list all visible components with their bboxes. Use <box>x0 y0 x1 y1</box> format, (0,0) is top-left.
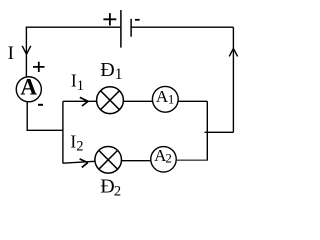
lamp D2 <box>95 147 122 174</box>
arrow return current upward <box>229 48 237 56</box>
arrow current I downward <box>22 46 31 55</box>
wire bottom-left horizontal to left bus <box>27 129 64 131</box>
wire left vertical <box>25 27 27 77</box>
wire top right horizontal <box>131 26 233 28</box>
wire branch2 left segment <box>63 161 95 163</box>
wire right bus vertical <box>206 101 208 160</box>
svg-text:A: A <box>20 75 37 100</box>
wire branch2 right segment <box>176 159 207 161</box>
label + ammeter A <box>33 62 45 72</box>
svg-text:I: I <box>8 43 14 64</box>
battery B negative plate <box>130 19 132 37</box>
ammeter A <box>16 77 41 102</box>
ammeter A1 <box>152 86 178 112</box>
ammeter A2 <box>151 147 177 173</box>
wire top left horizontal <box>26 26 121 28</box>
wire branch1 left segment <box>63 100 97 102</box>
wire branch1 middle segment <box>123 100 152 102</box>
label - battery <box>135 19 140 21</box>
arrow current I2 <box>80 159 88 168</box>
lamp D1 <box>97 87 124 114</box>
wire branch1 right segment <box>178 100 207 102</box>
arrow current I1 <box>80 97 88 106</box>
wire branch2 middle segment <box>122 160 151 162</box>
wire mid right horizontal <box>205 131 234 133</box>
label + battery <box>103 13 116 25</box>
wire left bus vertical <box>62 101 64 163</box>
battery B positive plate <box>120 10 122 48</box>
label - ammeter A <box>38 104 43 106</box>
wire right vertical <box>232 27 234 132</box>
wire below ammeter A <box>26 102 28 130</box>
